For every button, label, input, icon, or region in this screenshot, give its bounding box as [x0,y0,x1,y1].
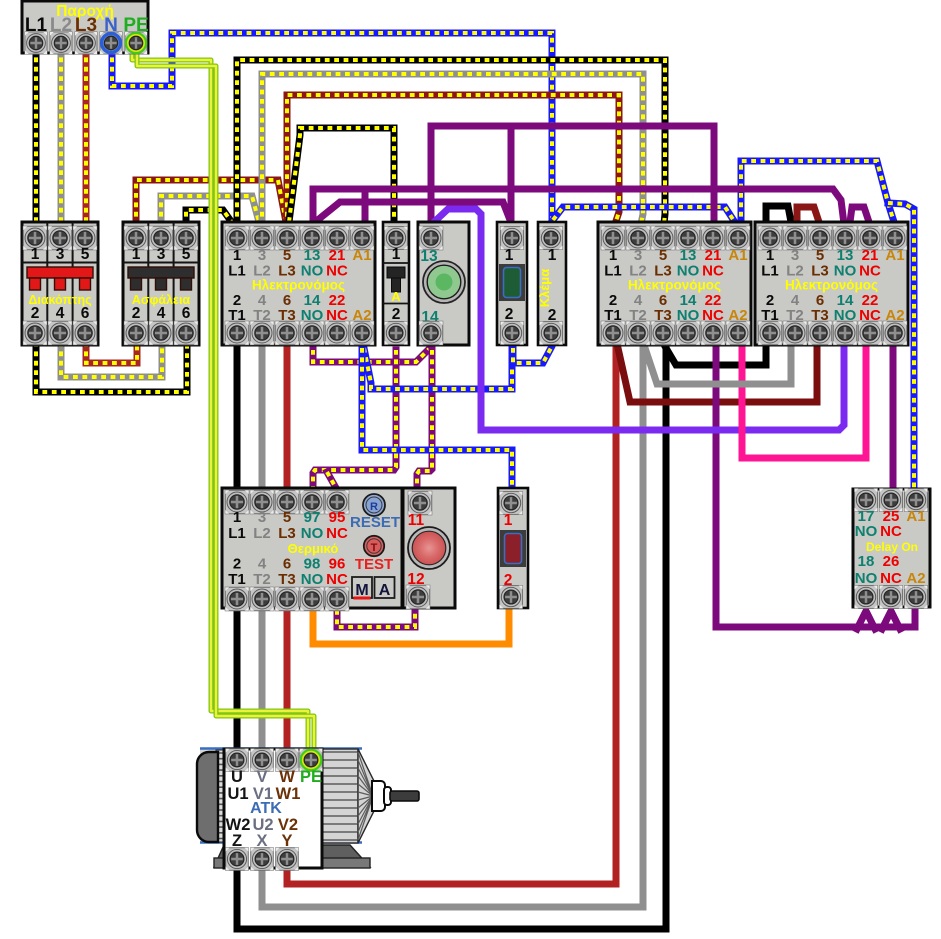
svg-text:3: 3 [258,247,266,264]
wire: K2-6 to K3-2 (black) [666,348,766,365]
wire: K1-2 to thermal 1 (black) [234,347,241,490]
svg-text:NO: NO [855,523,878,540]
svg-text:2: 2 [505,306,514,323]
svg-text:NO: NO [301,525,324,542]
svg-text:21: 21 [862,247,879,264]
wire: breaker 4 to fuse 4 (gray/yellow) [61,342,162,377]
wire: supply PE to motor PE (green/yellow) [132,48,308,758]
svg-text:5: 5 [283,247,291,264]
svg-text:97: 97 [304,509,321,526]
svg-text:NC: NC [880,570,902,587]
wire: K3 star bridge 3-5 (dark red) [797,207,819,224]
svg-text:Κλέμα: Κλέμα [537,269,552,307]
wire: fuse 3 to K1 pin3 (gray/yellow) [161,196,259,226]
svg-text:1: 1 [609,247,617,264]
svg-text:ATK: ATK [250,800,282,817]
terminal block (Κλέμα) [538,222,566,345]
wire: lamp 2 to terminal 2 (blue/yellow) [513,348,551,363]
wire: K3 A2 to timer 25 (purple) [890,348,897,488]
wire: K1 pin5 to K2 pin1 (dark red/yellow) [287,95,619,226]
svg-text:3: 3 [791,247,799,264]
svg-text:95: 95 [329,509,346,526]
wire: K1-6 to thermal 5 (red) [284,347,291,490]
svg-text:T2: T2 [253,571,271,588]
svg-text:L1: L1 [228,263,246,280]
svg-text:2: 2 [31,305,40,322]
wire: K3 bridge 13-21 (purple) [850,207,869,222]
svg-text:1: 1 [132,246,141,263]
svg-text:T1: T1 [228,571,246,588]
svg-text:1: 1 [233,247,241,264]
svg-text:21: 21 [705,247,722,264]
svg-text:W: W [279,768,295,786]
svg-text:Ηλεκτρονόμος: Ηλεκτρονόμος [785,278,878,293]
svg-text:3: 3 [157,246,166,263]
wire: thermal 98 to red lamp 2 (orange) [313,610,509,644]
svg-text:Ηλεκτρονόμος: Ηλεκτρονόμος [628,278,721,293]
svg-text:R: R [370,501,378,513]
wire: K1-13 / K1-A1 / K3-13 rail (purple) [313,189,844,224]
svg-text:5: 5 [816,247,824,264]
svg-text:3: 3 [634,247,642,264]
red stop push button (11/12) [403,488,455,608]
svg-text:A1: A1 [906,508,925,525]
wire: supply N to terminal block 1 (blue/yellow) [112,33,552,222]
svg-text:1: 1 [766,247,774,264]
svg-text:T: T [371,542,378,554]
svg-text:21: 21 [329,247,346,264]
svg-text:13: 13 [304,247,321,264]
wire: K2-2 to K3-6 (dark maroon) [618,348,817,402]
wire: terminal 1 to K2 A1 (blue/yellow) [553,207,736,224]
wire: K2 A2 to K3-22 (magenta) [742,348,866,458]
svg-text:1: 1 [392,246,401,263]
svg-text:Delay On: Delay On [866,540,918,554]
svg-text:13: 13 [680,247,697,264]
svg-text:98: 98 [304,556,321,573]
wire: fuse 1 to K1 pin5 (dark red/yellow) [136,180,286,226]
svg-text:3: 3 [56,246,65,263]
wire: thermal 4 to motor V (gray) [259,607,266,758]
svg-text:5: 5 [283,509,291,526]
svg-text:U: U [231,768,243,786]
wire: breaker 2 to fuse 6 (black/yellow) [36,342,187,392]
svg-text:L1: L1 [761,263,779,280]
wire: breaker 6 to fuse 2 (red/yellow) [86,342,137,363]
green indicator lamp block [497,222,527,345]
wire: start button 13 to K3-14 (violet) [433,209,844,430]
svg-text:11: 11 [408,512,425,529]
svg-text:A: A [379,582,391,599]
wire: supply L1 to breaker 1 (black/yellow) [33,48,40,226]
svg-text:A1: A1 [728,247,747,264]
svg-text:6: 6 [283,556,291,573]
svg-text:13: 13 [837,247,854,264]
svg-text:1: 1 [31,246,40,263]
wire: K3 star bridge 1-3 (black) [766,206,791,224]
wire: motor X to contactor K2 pin4 (gray) [262,348,643,907]
contactor K1 (Ηλεκτρονόμος) [222,222,375,345]
svg-text:4: 4 [157,305,166,322]
svg-text:A2: A2 [906,570,925,587]
svg-text:L1: L1 [604,263,622,280]
svg-text:5: 5 [182,246,191,263]
selector switch A block [383,222,409,345]
wire: thermal 6 to motor W (red) [284,607,291,758]
svg-text:PE: PE [300,768,322,786]
svg-text:2: 2 [132,305,141,322]
wire: K2 A1 to K3 A1 and timer A1 (blue/yellow) [741,161,894,226]
svg-text:M: M [355,582,368,599]
wire: K1 A2 to red lamp 1 (blue/yellow) [362,348,512,487]
svg-text:96: 96 [329,556,346,573]
svg-text:1: 1 [233,509,241,526]
wire: thermal 2 to motor U (black) [234,607,241,758]
svg-text:1: 1 [504,512,513,529]
svg-text:NO: NO [855,570,878,587]
svg-text:4: 4 [258,556,267,573]
wire: start button 13 / lamp1 / K2-21 rail (purple) [431,126,714,226]
wire: supply L3 to breaker 5 (red/yellow) [83,48,90,226]
wire: thermal 96 to stop button 12 (purple/yellow) [337,610,415,627]
svg-text:NO: NO [301,571,324,588]
svg-text:1: 1 [548,247,557,264]
svg-text:A1: A1 [885,247,904,264]
wire: K2-22 to timer 18/26/A2 (purple) [716,348,915,627]
green start push button (13/14) [418,222,469,345]
wire: supply L2 to breaker 3 (gray/yellow) [58,48,65,226]
wire: K1 pin3 to K2 pin3 (gray/yellow) [262,74,643,226]
wire: motor Y to contactor K2 pin2 (red) [287,348,616,884]
svg-text:3: 3 [258,509,266,526]
svg-text:6: 6 [81,305,90,322]
circuit breaker block (Διακόπτης) [22,222,98,345]
svg-text:1: 1 [505,247,514,264]
svg-text:TEST: TEST [355,556,393,573]
svg-text:Θερμικό: Θερμικό [288,541,339,556]
svg-text:U1: U1 [227,785,248,803]
wire: K1 A2 slant to lamp2 (blue/yellow) [364,348,512,389]
thermal overload relay (Θερμικό) [222,488,402,608]
svg-text:A: A [391,289,401,304]
svg-text:2: 2 [233,556,241,573]
fuse block (Ασφάλεια) [123,222,199,345]
wire: K1 pin1 to K2 pin5 (black/yellow) [237,60,665,226]
power supply block (Παροχή) [22,1,148,53]
wire: K1-4 to thermal 3 (gray) [259,347,266,490]
wire: thermal 95 diagonal (purple/yellow) [327,472,336,488]
svg-text:4: 4 [56,305,65,322]
wire: contactor K1 14 to start button 14 (purple/yellow) [313,349,429,362]
on-delay timer block (Delay On) [853,489,930,607]
svg-text:NC: NC [880,523,902,540]
svg-text:2: 2 [392,306,401,323]
red indicator lamp block [498,488,528,608]
wire: K1 pin5 to switch A pin1 (black/yellow) [289,128,394,226]
svg-text:5: 5 [81,246,90,263]
svg-text:L1: L1 [228,525,246,542]
three-phase motor (ATK) [200,748,360,843]
svg-text:Ηλεκτρονόμος: Ηλεκτρονόμος [252,278,345,293]
contactor K3 (Ηλεκτρονόμος) [755,222,908,345]
svg-text:6: 6 [182,305,191,322]
svg-text:NC: NC [326,525,348,542]
wire: switch A pin2 to thermal 97 (purple/yellow) [313,350,396,488]
wire: K1-13 slant to green lamp 1 (purple) [314,202,510,223]
contactor K2 (Ηλεκτρονόμος) [598,222,751,345]
svg-text:T3: T3 [278,571,296,588]
svg-text:RESET: RESET [350,514,400,531]
svg-text:V: V [256,768,267,786]
wire: K2-4 to K3-4 (gray) [645,348,791,384]
svg-text:5: 5 [659,247,667,264]
svg-text:L3: L3 [278,525,296,542]
svg-text:L2: L2 [253,525,271,542]
svg-text:18: 18 [858,553,875,570]
svg-text:26: 26 [883,553,900,570]
wire: motor Z to contactor K2 pin6 (black) [237,348,666,929]
svg-text:NC: NC [326,571,348,588]
svg-text:A1: A1 [352,247,371,264]
wire: fuse 5 to K1 pin1 (black/yellow) [186,210,233,226]
wire: start button 14 down to pin 11 of stop button block (purple/yellow) [417,350,432,488]
